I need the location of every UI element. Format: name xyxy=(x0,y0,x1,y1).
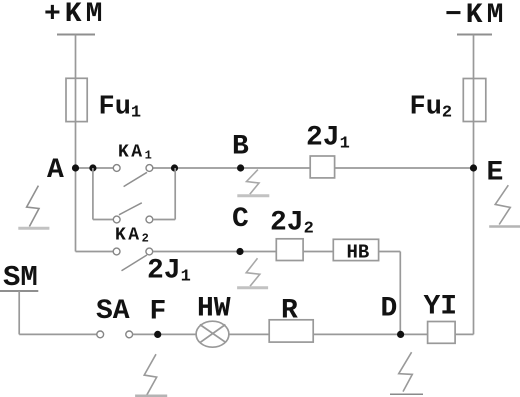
terminal bar SM xyxy=(0,290,38,292)
relay contact 2J1 xyxy=(113,248,153,271)
svg-text:A: A xyxy=(47,155,64,186)
relay coil 2J2 xyxy=(276,239,303,261)
wire: SM to switch SA xyxy=(19,333,97,335)
fuse Fu2 xyxy=(463,79,486,122)
junction dot (KA2 branch split) xyxy=(89,164,96,171)
node D xyxy=(397,331,404,338)
svg-text:HW: HW xyxy=(197,294,231,325)
terminal bar -KM xyxy=(457,34,492,36)
wire: YI to right vertical xyxy=(455,333,473,335)
terminal bar +KM xyxy=(57,34,95,36)
svg-text:SM: SM xyxy=(3,261,38,294)
wire: SM down xyxy=(18,291,20,334)
wire: coil 2J1 to node E xyxy=(335,167,474,169)
component HB xyxy=(333,239,378,260)
fault marker at F (lightning + bar) xyxy=(135,354,167,396)
wire: corner down to node D xyxy=(399,252,401,335)
wire: KA2 branch bottom right xyxy=(153,219,175,221)
fault marker at D (lightning + bar) xyxy=(390,352,423,394)
fuse Fu1 xyxy=(66,78,87,121)
wire: R through node D to coil YI xyxy=(313,333,427,335)
wire: 2J2 to HB xyxy=(303,251,333,253)
svg-text:R: R xyxy=(281,296,298,327)
wire: lamp to resistor R xyxy=(229,333,269,335)
relay contact KA1 xyxy=(113,165,153,187)
svg-text:SA: SA xyxy=(96,296,130,327)
node C xyxy=(236,248,243,255)
node A xyxy=(72,164,79,171)
relay coil 2J1 xyxy=(310,156,334,178)
switch SA xyxy=(97,331,133,338)
junction dot (KA2 branch rejoin) xyxy=(171,164,178,171)
wire: HB to corner xyxy=(379,251,401,253)
node E xyxy=(470,164,477,171)
wire: 2J1 contact to node C to coil 2J2 xyxy=(153,251,277,253)
svg-text:C: C xyxy=(232,204,249,235)
resistor R xyxy=(269,320,313,342)
svg-text:+KM: +KM xyxy=(44,0,106,30)
wire: KA2 branch left vertical xyxy=(92,168,94,220)
fault marker at B (lightning + bar) xyxy=(237,170,269,196)
wire: left vertical to 2J1 contact xyxy=(76,251,114,253)
svg-text:F: F xyxy=(150,297,167,328)
wire: KA2 branch bottom left xyxy=(93,219,113,221)
node F xyxy=(154,331,161,338)
svg-text:E: E xyxy=(487,158,504,189)
fault marker at E (lightning + bar) xyxy=(489,185,520,226)
wire: KA1 contact to node B to coil 2J1 xyxy=(153,167,310,169)
lamp HW xyxy=(196,321,229,347)
relay coil YI xyxy=(428,322,456,344)
svg-text:YI: YI xyxy=(424,292,458,323)
node B xyxy=(237,164,244,171)
wire: SA through node F to lamp HW xyxy=(133,333,197,335)
wire: -KM terminal down through Fu2 to node E and on down to YI branch (right vertical) xyxy=(473,35,475,335)
fault marker at C (lightning + bar) xyxy=(237,258,268,288)
svg-text:−KM: −KM xyxy=(445,0,507,31)
wire: KA2 branch right vertical xyxy=(174,168,176,220)
svg-text:D: D xyxy=(381,294,398,325)
wire: +KM terminal down to node A and on to 2J1 contact row (left vertical) xyxy=(75,35,77,252)
svg-text:B: B xyxy=(232,132,249,163)
relay contact KA2 xyxy=(113,203,153,223)
wire: node A to KA1 contact xyxy=(76,167,114,169)
fault marker at A (lightning + bar) xyxy=(18,186,49,229)
svg-text:HB: HB xyxy=(347,242,370,264)
